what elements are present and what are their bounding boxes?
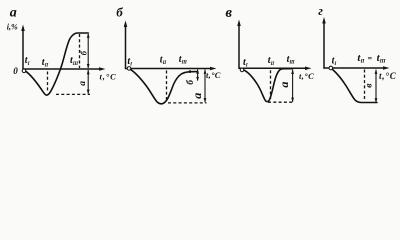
dashed tII drop line [47,72,49,93]
origin circle [127,67,131,71]
y-axis arrowhead [237,20,241,27]
dashed tII=tIII drop line [364,70,366,102]
origin circle [329,66,333,70]
dimension line a span [204,70,206,103]
curve a [26,33,89,95]
svg-text:г: г [318,4,323,18]
y-axis [22,30,24,69]
svg-text:а: а [78,81,88,86]
svg-text:б: б [116,5,123,20]
dimension line b span [197,70,199,81]
y-axis [125,26,127,69]
curve v [244,69,293,102]
curve g [333,69,378,102]
x-axis [126,68,212,70]
svg-text:t,°C: t,°C [379,71,397,81]
dashed tIII short line [189,70,191,73]
dimension line upper (b span) [87,34,89,68]
dashed tII drop line [270,70,272,99]
x-axis arrowhead [305,67,312,71]
origin circle [22,69,26,73]
dashed tII drop line [166,71,168,102]
curve b [131,70,198,104]
bottom dashed level line [268,101,294,103]
dimension line v span [375,70,377,103]
x-axis [239,67,306,69]
svg-text:t,°C: t,°C [299,71,314,81]
svg-text:t,°C: t,°C [100,71,117,81]
y-axis arrowhead [322,17,326,24]
dimension line a span [292,70,294,102]
x-axis [324,67,384,69]
dimension line lower (a span) [87,70,89,94]
svg-text:а: а [277,82,291,88]
x-axis [23,68,100,70]
x-axis arrowhead [99,67,106,71]
origin circle [240,68,244,72]
x-axis arrowhead [383,66,390,70]
dashed tIII line [79,34,81,68]
svg-text:а: а [190,93,204,99]
bottom dashed level line [168,102,207,104]
y-axis arrowhead [124,21,128,28]
svg-text:а: а [10,5,17,20]
svg-text:0: 0 [13,66,18,76]
svg-text:б: б [78,50,88,55]
bottom dashed level line [56,93,90,95]
y-axis [238,25,240,68]
svg-text:i,%: i,% [7,23,18,32]
svg-text:в: в [226,5,233,21]
y-axis arrowhead [21,25,25,32]
x-axis arrowhead [210,67,217,71]
svg-text:t,°C: t,°C [206,70,221,80]
y-axis [323,23,325,69]
